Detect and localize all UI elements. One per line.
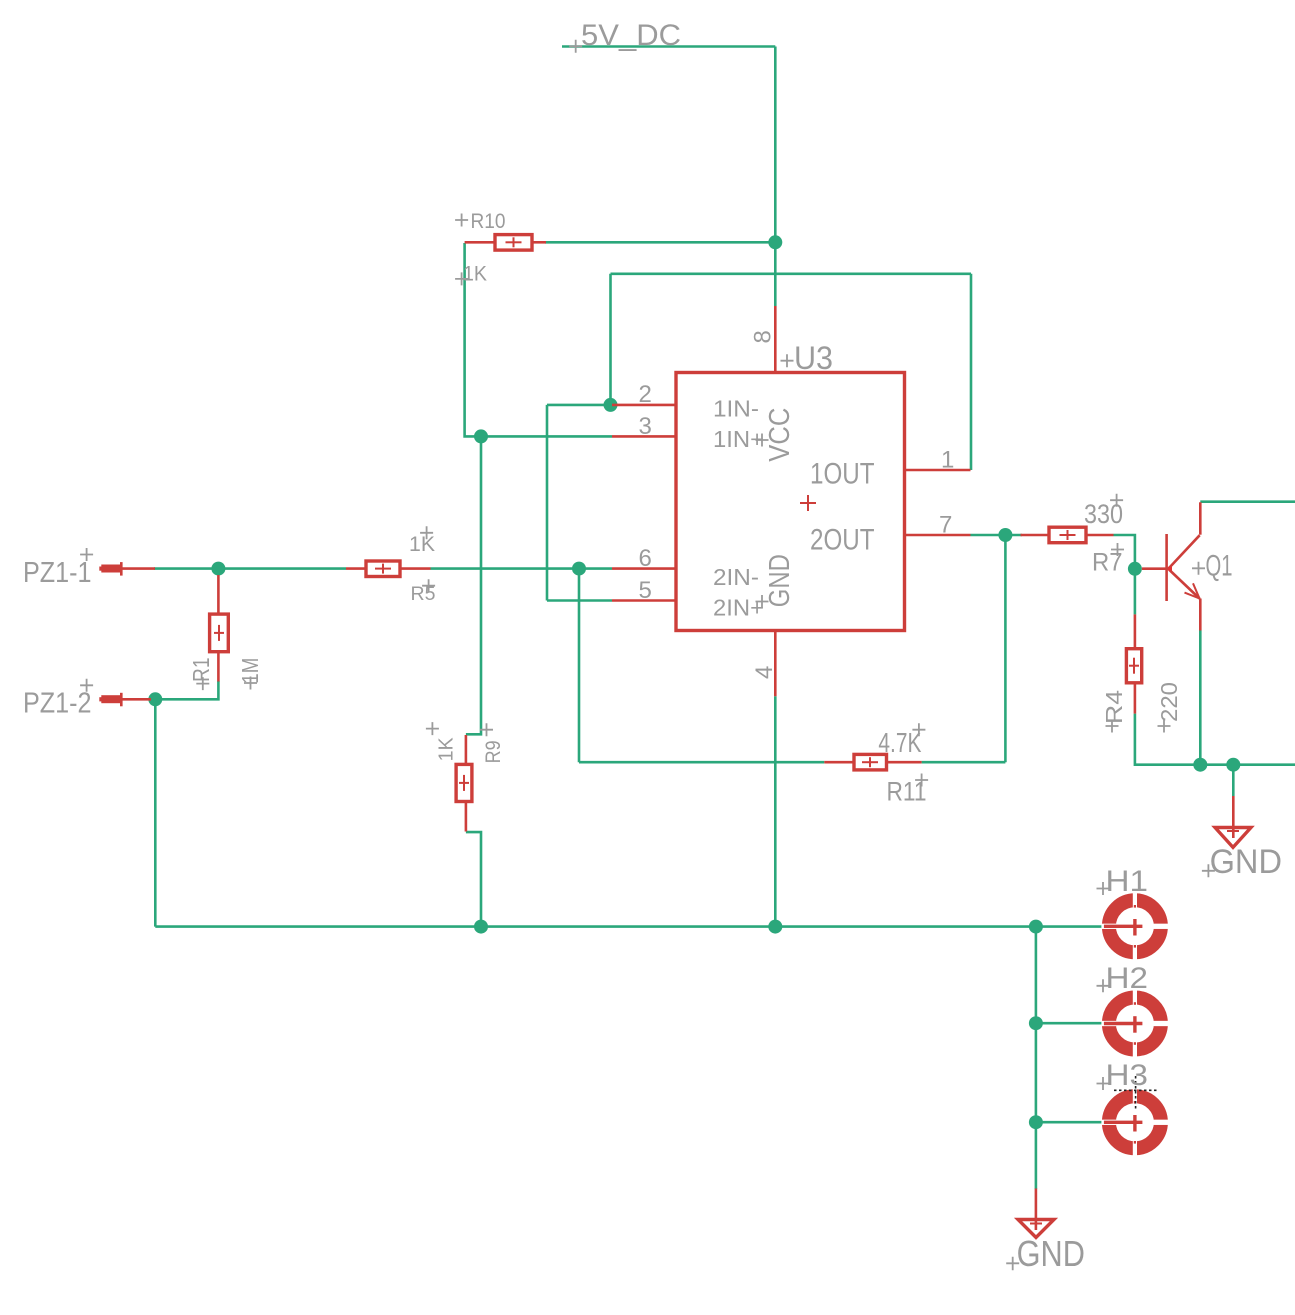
svg-text:2OUT: 2OUT — [810, 524, 875, 557]
wire node A branch down to R9 — [466, 436, 481, 734]
node junction H2 — [1029, 1016, 1043, 1030]
origin cross R9 value — [426, 722, 439, 735]
wire to R11 left — [579, 761, 824, 764]
wire mid vertical pin2 to pin5 — [546, 405, 549, 601]
svg-text:3: 3 — [639, 413, 652, 440]
wire 1OUT feedback top horizontal — [611, 272, 972, 275]
resistor R9 — [456, 735, 472, 832]
svg-text:7: 7 — [939, 512, 952, 539]
origin cross R10 value — [455, 272, 468, 285]
wire R10 left down — [465, 243, 612, 436]
origin cross R10 name — [455, 214, 468, 227]
svg-text:2: 2 — [639, 381, 652, 408]
svg-text:PZ1-1: PZ1-1 — [23, 557, 92, 589]
wire pin6 node down — [578, 569, 581, 763]
svg-text:2IN+: 2IN+ — [713, 594, 764, 620]
svg-text:U3: U3 — [794, 340, 833, 376]
origin cross R11 name — [915, 774, 928, 787]
cursor crosshair over H3 — [1114, 1076, 1157, 1111]
svg-text:6: 6 — [639, 545, 652, 572]
wire pin2 horizontal — [547, 404, 612, 407]
wire emitter drop — [1199, 631, 1202, 765]
svg-text:1OUT: 1OUT — [810, 457, 875, 490]
node junction pin2 feedback — [604, 398, 618, 412]
svg-text:1K: 1K — [409, 533, 435, 556]
wire 5V_DC horizontal — [562, 45, 775, 48]
wire PZ1-2 vertical down — [154, 699, 157, 926]
wire 5V_DC vertical drop — [774, 47, 777, 244]
node junction gnd1 bus — [1226, 758, 1240, 772]
resistor R7 — [1021, 527, 1114, 543]
origin cross GND pin — [756, 595, 769, 608]
node junction pin3 R9 — [474, 429, 488, 443]
wire to H3 — [1036, 1121, 1103, 1124]
svg-text:220: 220 — [1156, 682, 1182, 722]
wire junction down to pin8 — [774, 242, 777, 306]
svg-text:R5: R5 — [411, 584, 436, 605]
resistor R1 — [210, 575, 229, 682]
origin cross R5 value — [420, 526, 433, 539]
transistor Q1 — [1142, 502, 1200, 630]
wire pin4 down to bus — [774, 696, 777, 926]
svg-text:1IN-: 1IN- — [713, 396, 759, 422]
svg-text:GND: GND — [1210, 843, 1282, 881]
hole H2 — [1101, 990, 1168, 1057]
ground symbol GND2 — [1018, 1189, 1054, 1238]
wire R4 bottom down — [1135, 714, 1295, 765]
origin cross R11 value — [912, 723, 925, 736]
origin cross R1 value — [244, 677, 257, 690]
wire R11 up to pin7 node — [1004, 535, 1007, 762]
origin cross H2 — [1097, 979, 1110, 992]
node junction pin7 R11 — [998, 528, 1012, 542]
svg-text:1K: 1K — [436, 737, 458, 762]
svg-text:5: 5 — [639, 577, 652, 604]
svg-text:Q1: Q1 — [1206, 550, 1233, 583]
pin 2 stub U3 — [612, 404, 676, 407]
svg-text:R1: R1 — [188, 658, 214, 683]
pin 4 stub U3 — [774, 631, 777, 697]
origin cross H3 — [1097, 1077, 1110, 1090]
origin cross R1 name — [196, 677, 209, 690]
svg-text:1K: 1K — [463, 263, 487, 286]
svg-text:GND: GND — [1017, 1233, 1085, 1274]
svg-text:PZ1-2: PZ1-2 — [23, 688, 92, 720]
origin cross R9 name — [480, 723, 493, 736]
pin 5 stub U3 — [612, 599, 676, 602]
svg-text:5V_DC: 5V_DC — [581, 19, 681, 52]
pin 6 stub U3 — [612, 567, 676, 570]
node junction PZ1-2 — [148, 692, 162, 706]
svg-text:R10: R10 — [471, 210, 506, 233]
node junction PZ1-1 R1 — [211, 562, 225, 576]
hole H3 — [1101, 1089, 1168, 1156]
wire pin7 to R7 — [971, 534, 1023, 537]
svg-text:2IN-: 2IN- — [713, 564, 759, 590]
wire to H2 — [1036, 1022, 1103, 1025]
origin cross PZ1-1 — [80, 548, 93, 561]
node junction 5V at R10 — [768, 235, 782, 249]
origin cross GND lower — [1006, 1257, 1019, 1271]
wire collector bus right — [1200, 500, 1295, 503]
origin cross R4 name — [1106, 720, 1119, 733]
resistor R5 — [346, 561, 431, 577]
node junction H3 — [1029, 1115, 1043, 1129]
svg-text:8: 8 — [750, 330, 777, 343]
node junction pin6 — [572, 562, 586, 576]
resistor R4 — [1126, 614, 1141, 713]
resistor R10 — [465, 235, 546, 251]
svg-text:H1: H1 — [1106, 865, 1149, 898]
wire GND1 drop — [1232, 765, 1235, 796]
origin cross U3 — [781, 354, 794, 367]
pin 3 stub U3 — [612, 435, 676, 438]
origin cross R5 name — [422, 579, 435, 592]
resistor R11 — [824, 754, 921, 770]
origin cross 5V_DC — [569, 40, 582, 53]
wire R7 right to Q1 column — [1114, 535, 1135, 569]
origin cross VCC — [756, 434, 769, 447]
origin cross R7 value — [1110, 494, 1123, 507]
origin cross R4 value — [1158, 720, 1171, 733]
svg-text:R9: R9 — [482, 740, 505, 763]
wire holes column — [1035, 927, 1038, 1189]
wire R11 right — [922, 761, 1006, 764]
node junction bus holes — [1029, 920, 1043, 934]
pin 7 stub U3 — [905, 534, 971, 537]
node junction emitter bus — [1193, 758, 1207, 772]
origin cross Q1 — [1192, 562, 1205, 575]
wire junction to R10 right — [545, 241, 775, 244]
svg-text:GND: GND — [764, 554, 796, 607]
wire pin5 horizontal — [547, 599, 612, 602]
wire to H1 — [1036, 925, 1103, 928]
origin cross H1 — [1097, 882, 1110, 895]
svg-text:H3: H3 — [1106, 1059, 1149, 1092]
svg-text:4: 4 — [751, 666, 778, 679]
ground symbol GND1 — [1215, 796, 1251, 847]
wire bottom ground bus — [155, 925, 1036, 928]
wire R1 bottom to PZ1-2 node — [155, 681, 218, 699]
node junction bus pin4 — [768, 920, 782, 934]
wire R9 bottom jog — [466, 832, 481, 927]
node junction Q1 base R4 — [1128, 562, 1142, 576]
wire feedback right vertical to pin1 — [970, 274, 973, 470]
svg-text:VCC: VCC — [764, 408, 796, 462]
origin cross PZ1-2 — [80, 679, 93, 692]
connector pin PZ1-2 — [99, 693, 151, 707]
svg-text:H2: H2 — [1106, 962, 1149, 995]
wire Q1 base node down to R4 — [1134, 569, 1137, 615]
wire feedback left vertical — [609, 274, 612, 405]
wire R5 to pin6 — [431, 567, 613, 570]
hole H1 — [1101, 893, 1168, 960]
wire PZ1-1 to R5 — [154, 567, 346, 570]
svg-text:4.7K: 4.7K — [878, 727, 921, 758]
node junction bus R9 — [474, 920, 488, 934]
op-amp U3 — [676, 373, 905, 631]
svg-text:1: 1 — [941, 447, 954, 474]
connector pin PZ1-1 — [99, 562, 155, 576]
svg-text:R11: R11 — [887, 777, 927, 807]
pin 1 stub U3 — [905, 469, 971, 472]
pin 8 stub U3 — [774, 306, 777, 373]
svg-text:R4: R4 — [1101, 690, 1127, 724]
origin cross GND upper — [1202, 864, 1215, 877]
origin cross R7 name — [1111, 543, 1124, 556]
